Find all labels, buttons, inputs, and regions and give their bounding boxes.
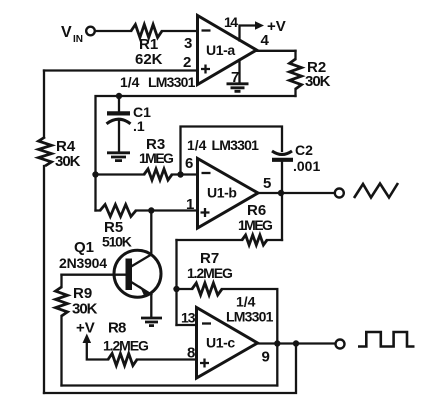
capacitor C2: [272, 151, 292, 155]
resistor R1: [131, 25, 162, 38]
svg-text:1/4: 1/4: [120, 74, 140, 90]
wire bottom feedback inner y385.5: [62, 384, 278, 386]
wire U1-b output: [258, 192, 335, 194]
pin 14 wire and +V arrow: [240, 26, 256, 41]
node collector junction: [148, 207, 154, 213]
svg-text:1.2MEG: 1.2MEG: [187, 265, 233, 281]
svg-text:30K: 30K: [55, 153, 81, 170]
wire U1-c output: [258, 342, 336, 344]
node terminal circle U1-b: [335, 189, 344, 198]
svg-text:2: 2: [183, 54, 191, 71]
svg-text:1MEG: 1MEG: [238, 217, 273, 233]
rail x176.5: [175, 240, 177, 325]
wire y96 from R2 bottom to left: [96, 96, 296, 211]
svg-text:V: V: [61, 24, 72, 41]
resistor R9: [60, 275, 62, 287]
svg-text:Q1: Q1: [74, 239, 94, 256]
node terminal circle U1-c: [336, 340, 345, 349]
svg-text:5: 5: [263, 175, 271, 192]
node VIN input terminal: [86, 27, 95, 36]
wire bottom feedback outer y393: [44, 344, 296, 394]
svg-text:1.2MEG: 1.2MEG: [103, 338, 149, 354]
svg-text:1/4: 1/4: [236, 294, 256, 310]
svg-text:9: 9: [262, 349, 270, 366]
node junction 2: [293, 340, 299, 346]
left rail: [43, 71, 45, 138]
svg-text:1/4: 1/4: [187, 137, 207, 153]
svg-text:R9: R9: [73, 285, 92, 302]
node C1 top junction: [116, 93, 122, 99]
resistor R8: [108, 354, 137, 366]
svg-text:+V: +V: [267, 18, 286, 35]
svg-text:6: 6: [185, 155, 193, 172]
svg-text:14: 14: [224, 14, 238, 30]
svg-text:62K: 62K: [135, 51, 163, 68]
ground Q1: [141, 318, 162, 326]
svg-text:IN: IN: [73, 34, 83, 45]
wire pin1 line y210.5: [96, 209, 101, 211]
+V arrow (R8): [83, 334, 92, 344]
svg-text:1MEG: 1MEG: [139, 150, 174, 166]
wire R1 to pin3: [162, 30, 198, 32]
svg-text:.1: .1: [133, 118, 145, 134]
node junction C2 branch: [177, 171, 183, 177]
svg-text:30K: 30K: [72, 301, 98, 318]
wire R6 feedback line: [177, 239, 243, 241]
transistor Q1: [114, 250, 161, 297]
svg-text:13: 13: [181, 310, 196, 326]
op-amp U1-b: [198, 159, 259, 229]
wire C2 top loop: [181, 127, 283, 175]
svg-text:LM3301: LM3301: [148, 74, 196, 90]
square wave symbol: [358, 332, 415, 347]
svg-text:+V: +V: [76, 320, 95, 337]
triangle wave symbol: [354, 183, 398, 198]
op-amp U1-c: [197, 308, 258, 379]
resistor R4: [39, 137, 52, 166]
capacitor C1: [118, 96, 120, 113]
svg-text:U1-b: U1-b: [207, 185, 237, 201]
svg-text:U1-a: U1-a: [206, 42, 235, 58]
ground C1: [107, 153, 130, 161]
svg-text:LM3301: LM3301: [226, 309, 274, 325]
svg-text:LM3301: LM3301: [212, 137, 260, 153]
svg-text:U1-c: U1-c: [206, 335, 235, 351]
svg-text:C2: C2: [295, 142, 313, 158]
node junction left rail2: [92, 171, 98, 177]
resistor R3: [144, 169, 172, 180]
node output junction: [278, 190, 284, 196]
op-amp U1-a: [198, 16, 257, 85]
resistor R6: [242, 235, 267, 245]
svg-text:4: 4: [261, 32, 270, 49]
svg-text:2N3904: 2N3904: [59, 255, 107, 271]
svg-text:510K: 510K: [102, 234, 132, 250]
wire VIN to R1: [95, 30, 131, 32]
svg-text:8: 8: [187, 345, 195, 362]
ground U1-a: [227, 84, 249, 92]
pin 7 wire: [238, 60, 240, 83]
svg-text:3: 3: [184, 35, 192, 52]
svg-text:30K: 30K: [305, 73, 331, 90]
wire pin6 line y174.5: [96, 173, 145, 175]
resistor R2: [294, 51, 296, 59]
pin 4 output wire: [257, 50, 296, 52]
svg-text:R8: R8: [108, 320, 126, 337]
node junction 1: [274, 340, 280, 346]
resistor R5: [100, 205, 136, 217]
resistor R7: [177, 288, 193, 290]
svg-text:.001: .001: [293, 158, 320, 174]
wire pin2 from left rail: [44, 69, 198, 71]
node R7 junction: [173, 286, 179, 292]
wire pin13: [177, 324, 197, 326]
